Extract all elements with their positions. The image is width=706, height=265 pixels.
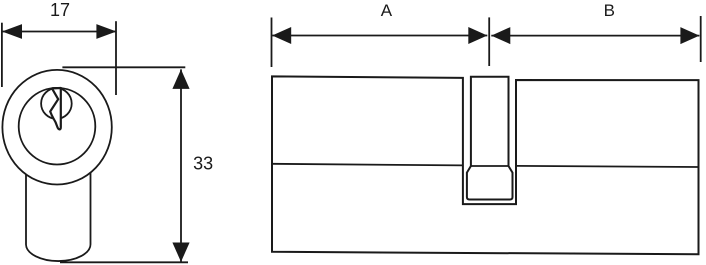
right view: A/B left extension tick — [271, 18, 273, 68]
svg-text:33: 33 — [193, 153, 213, 173]
left view: keyway profile — [50, 88, 61, 129]
right view: A dim right arrowhead — [468, 27, 487, 44]
left view: 17 dim right extension tick — [115, 21, 117, 95]
right view: cam channel and cam lobe — [467, 77, 513, 200]
left view: cylinder face inner circle — [19, 88, 96, 165]
left view: cylinder face outer ring — [2, 70, 111, 185]
right view: B dim right arrowhead — [680, 27, 699, 44]
right view: B dimension line — [491, 35, 699, 37]
svg-text:B: B — [604, 1, 615, 20]
left view: 17 dimension line — [2, 31, 116, 33]
left view: 17 dim left extension tick — [1, 23, 3, 87]
right view: A dimension line — [272, 35, 487, 37]
right view: cam inner parting line — [471, 165, 509, 167]
right view: A/B middle extension tick — [488, 17, 490, 66]
left view: 33 dimension line — [180, 69, 182, 262]
left view: 33 dim bottom extension line — [60, 261, 188, 263]
left view: 33 dim bottom arrowhead — [172, 243, 189, 262]
svg-text:A: A — [381, 1, 393, 20]
right view: housing mid parting line left — [272, 164, 463, 166]
right view: housing mid parting line right — [516, 166, 699, 167]
left view: 33 dim top extension line — [62, 66, 185, 68]
right view: A dim left arrowhead — [272, 27, 291, 44]
right view: B dim left arrowhead — [491, 27, 510, 44]
left view: key plug circle — [41, 88, 72, 119]
right view: A/B right extension tick — [700, 16, 702, 62]
left view: cylinder body (lower housing with rounded bottom) — [26, 170, 91, 261]
right view: cylinder housing outline with cam slot — [272, 76, 699, 254]
left view: 33 dim top arrowhead — [172, 69, 189, 89]
left view: 17 dim right arrowhead — [96, 24, 116, 39]
left view: 17 dim left arrowhead — [2, 24, 22, 39]
svg-text:17: 17 — [50, 0, 70, 20]
